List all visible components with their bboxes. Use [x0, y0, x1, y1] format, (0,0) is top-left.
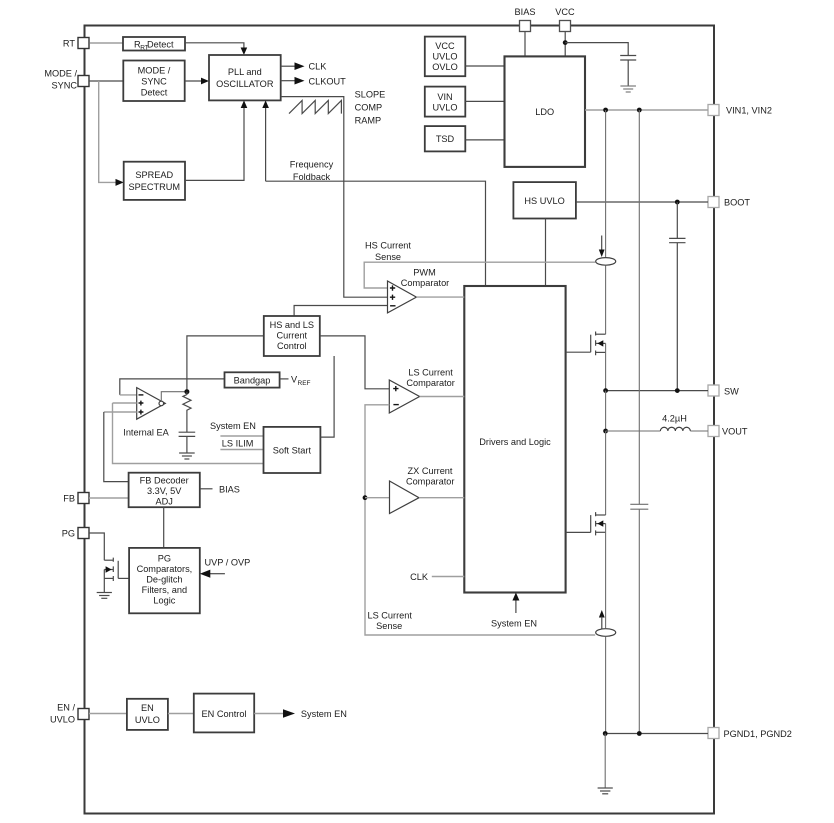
wire sensor to HS FET drain — [605, 266, 607, 335]
block FB Decoder — [129, 473, 200, 508]
svg-text:PLL and: PLL and — [228, 67, 262, 77]
wire PG gate to PG comparators — [118, 577, 129, 579]
block HS UVLO — [513, 182, 576, 218]
wire frequency foldback vertical to PLL bottom with arrow — [262, 100, 269, 181]
svg-text:SPREAD: SPREAD — [135, 170, 173, 180]
label ZX Current Comparator — [406, 466, 455, 487]
svg-text:Detect: Detect — [141, 88, 168, 98]
wire LDO to VIN pin — [585, 109, 708, 111]
op-amp ZX current comparator — [390, 481, 420, 514]
wire LS comparator output to drivers — [420, 396, 465, 398]
svg-text:System EN: System EN — [491, 619, 537, 629]
block VCC UVLO OVLO — [425, 37, 466, 77]
label BOOT — [724, 198, 750, 208]
svg-text:HS Current: HS Current — [365, 241, 411, 251]
chip outer border — [85, 26, 715, 814]
output CLK arrow — [281, 62, 328, 72]
svg-text:Soft Start: Soft Start — [273, 446, 312, 456]
wire comp node to HS and LS current control — [187, 336, 264, 392]
svg-text:CLK: CLK — [309, 62, 328, 72]
svg-text:VCC: VCC — [435, 41, 455, 51]
op-amp PWM comparator — [388, 281, 417, 313]
label EN / UVLO — [50, 703, 75, 725]
svg-text:Logic: Logic — [153, 596, 175, 606]
label UVP / OVP — [205, 558, 251, 568]
wire PWM minus input from HS and LS current control — [294, 306, 387, 317]
svg-text:System EN: System EN — [301, 709, 347, 719]
svg-text:Sense: Sense — [376, 621, 402, 631]
svg-text:OVLO: OVLO — [432, 62, 458, 72]
svg-text:VOUT: VOUT — [722, 427, 748, 437]
svg-text:EN /: EN / — [57, 703, 75, 713]
transistor HS FET — [591, 332, 606, 356]
svg-text:OSCILLATOR: OSCILLATOR — [216, 79, 274, 89]
wire HS current sense — [364, 262, 595, 288]
arrow into SPREAD SPECTRUM — [116, 179, 124, 186]
svg-text:CLK: CLK — [410, 572, 429, 582]
label Frequency Foldback — [290, 159, 334, 182]
op-amp internal EA — [137, 388, 166, 420]
pin PGND1,PGND2 — [708, 728, 719, 739]
svg-text:Sense: Sense — [375, 252, 401, 262]
svg-text:Internal EA: Internal EA — [123, 428, 169, 438]
sawtooth slope comp ramp waveform — [289, 100, 341, 113]
svg-text:REF: REF — [298, 380, 311, 387]
svg-text:COMP: COMP — [355, 103, 383, 113]
wire TSD to LDO — [465, 139, 504, 141]
svg-text:Comparator: Comparator — [406, 378, 455, 388]
block TSD — [425, 126, 466, 151]
wire BIAS stub — [200, 488, 213, 490]
resistor compensation — [183, 392, 191, 433]
label PG — [62, 529, 75, 539]
svg-text:SLOPE: SLOPE — [355, 90, 386, 100]
pin VIN1,VIN2 — [708, 105, 719, 116]
label 4.2uH — [662, 414, 687, 424]
ground compensation — [179, 453, 195, 459]
svg-text:RT: RT — [63, 39, 75, 49]
node BOOT cap junction — [675, 200, 680, 205]
pin PG — [78, 528, 89, 539]
label LS Current Comparator — [406, 368, 455, 388]
node ZX tap — [363, 495, 368, 500]
node VIN rail 1 — [603, 108, 608, 113]
label SLOPE COMP RAMP — [355, 90, 386, 126]
block LDO — [505, 56, 586, 166]
svg-text:MODE /: MODE / — [44, 69, 77, 79]
wire power rail from VIN — [605, 110, 607, 257]
svg-text:BIAS: BIAS — [515, 7, 536, 17]
wire RT pin to RRT Detect — [89, 42, 123, 44]
svg-text:Filters, and: Filters, and — [142, 585, 187, 595]
label LS Current Sense — [367, 611, 412, 632]
wire PGND to ground — [604, 734, 606, 789]
transistor PG FET — [104, 558, 118, 581]
transistor LS FET — [591, 512, 606, 535]
wire VOUT node to LS FET drain — [605, 431, 607, 515]
label BIAS right of FB decoder — [219, 485, 240, 495]
wire LS sensor to PGND — [605, 637, 607, 734]
label VCC — [555, 7, 575, 17]
wire SPREAD SPECTRUM to PLL bottom with arrow — [185, 100, 247, 180]
capacitor compensation — [179, 432, 196, 453]
block EN UVLO — [127, 699, 168, 730]
svg-text:VIN: VIN — [437, 92, 452, 102]
wire BIAS pin to LDO — [524, 32, 526, 57]
block Bandgap — [225, 372, 280, 387]
pin MODE/SYNC — [78, 76, 89, 87]
svg-text:LS ILIM: LS ILIM — [222, 438, 254, 448]
label PWM Comparator — [401, 268, 450, 289]
wire CLK into drivers — [432, 576, 465, 578]
block PG Comparators — [129, 548, 200, 613]
svg-text:ZX Current: ZX Current — [408, 466, 453, 476]
label System EN soft start — [210, 421, 256, 431]
wire UVP OVP arrow into PG box — [200, 570, 225, 578]
label PGND1, PGND2 — [724, 729, 792, 739]
capacitor BOOT bootstrap — [669, 202, 685, 391]
capacitor VCC bypass — [620, 56, 636, 87]
wire VCC to cap — [565, 43, 628, 56]
ground power — [598, 788, 613, 794]
node SW left — [603, 388, 608, 393]
block Soft Start — [264, 427, 321, 473]
svg-text:FB: FB — [63, 494, 75, 504]
pin BOOT — [708, 197, 719, 208]
svg-text:FB Decoder: FB Decoder — [140, 476, 189, 486]
block VIN UVLO — [425, 87, 466, 117]
svg-text:UVLO: UVLO — [432, 103, 457, 113]
wire HS UVLO to BOOT pin — [576, 201, 708, 203]
svg-text:Comparator: Comparator — [401, 278, 450, 288]
label LS ILIM — [222, 438, 254, 448]
svg-text:PG: PG — [158, 554, 171, 564]
pin VCC — [560, 21, 571, 32]
capacitor input cap — [630, 504, 648, 733]
wire inductor to VOUT pin — [690, 430, 708, 432]
svg-text:RAMP: RAMP — [355, 116, 382, 126]
wire LS current sense line — [365, 405, 595, 635]
current sensor LS ellipse — [596, 629, 616, 637]
svg-text:PGND1, PGND2: PGND1, PGND2 — [724, 729, 792, 739]
svg-text:UVLO: UVLO — [135, 715, 160, 725]
wire HS gate from drivers — [566, 351, 591, 353]
block SPREAD SPECTRUM — [124, 162, 185, 200]
svg-text:Detect: Detect — [147, 39, 174, 49]
pin BIAS — [520, 21, 531, 32]
node VCC cap junction — [563, 40, 568, 45]
wire soft start to EA plus — [113, 403, 264, 464]
wire frequency foldback horizontal to drivers — [266, 181, 486, 286]
wire MODE/SYNC drop to SPREAD SPECTRUM — [99, 81, 116, 182]
ground VCC cap — [620, 86, 636, 92]
block MODE/SYNC Detect — [123, 61, 184, 102]
wire LS gate from drivers — [566, 531, 591, 533]
label CLK — [410, 572, 429, 582]
wire EA output to node — [161, 392, 187, 401]
wire HS UVLO to drivers top — [545, 219, 547, 287]
output CLKOUT arrow — [281, 76, 346, 86]
block Drivers and Logic — [464, 286, 565, 593]
label BIAS — [515, 7, 536, 17]
svg-text:Bandgap: Bandgap — [234, 376, 271, 386]
node VOUT rail — [603, 429, 608, 434]
op-amp LS current comparator — [389, 380, 419, 413]
block EN Control — [194, 694, 254, 733]
arrow HS current direction — [599, 236, 605, 258]
wire FB decoder to PG comparators — [163, 507, 165, 548]
label MODE / SYNC — [44, 69, 77, 91]
pin SW — [708, 385, 719, 396]
arrow LS current direction — [599, 610, 605, 629]
wire RRT Detect to PLL top with arrow — [185, 43, 247, 55]
wire MODE/SYNC pin to MODE/SYNC Detect — [89, 80, 123, 82]
svg-text:VCC: VCC — [555, 7, 575, 17]
svg-text:4.2µH: 4.2µH — [662, 414, 687, 424]
svg-text:SW: SW — [724, 387, 739, 397]
wire VCC UVLO to LDO — [465, 65, 504, 67]
svg-text:Comparators,: Comparators, — [137, 564, 193, 574]
wire MODE/SYNC Detect to PLL with arrow — [185, 78, 209, 85]
svg-text:EN Control: EN Control — [202, 709, 247, 719]
node PGND rail2 — [637, 731, 642, 736]
svg-text:Frequency: Frequency — [290, 159, 334, 169]
block HS and LS Current Control — [264, 316, 320, 356]
label VREF — [280, 375, 311, 387]
wire SW to pin — [606, 390, 708, 392]
svg-text:UVLO: UVLO — [50, 715, 75, 725]
node VIN rail 2 — [637, 108, 642, 113]
svg-text:SYNC: SYNC — [141, 77, 167, 87]
svg-text:Control: Control — [277, 341, 307, 351]
wire slope comp ramp from PLL to PWM comparator — [281, 97, 388, 298]
pin RT — [78, 38, 89, 49]
wire FB decoder to EA plus — [104, 412, 137, 482]
wire soft start to HS and LS control — [320, 356, 334, 437]
svg-text:VIN1, VIN2: VIN1, VIN2 — [726, 106, 772, 116]
label System EN output — [301, 709, 347, 719]
wire SW to VOUT node — [605, 391, 607, 431]
wire FB pin to FB decoder — [89, 497, 129, 499]
wire input cap rail — [638, 110, 640, 504]
wire HS FET source to SW — [605, 343, 607, 390]
block PLL and OSCILLATOR — [209, 55, 281, 100]
svg-text:Comparator: Comparator — [406, 477, 455, 487]
svg-text:CLKOUT: CLKOUT — [309, 76, 347, 86]
wire ZX output to drivers — [419, 497, 464, 499]
pin EN/UVLO — [78, 709, 89, 720]
svg-text:System EN: System EN — [210, 421, 256, 431]
label FB — [63, 494, 75, 504]
svg-text:ADJ: ADJ — [156, 497, 173, 507]
node EA output — [184, 389, 189, 394]
svg-text:TSD: TSD — [436, 134, 455, 144]
wire System EN arrow into drivers bottom — [512, 593, 519, 614]
label HS Current Sense — [365, 241, 411, 263]
wire LS ILIM stub — [220, 449, 263, 451]
wire HS and LS control to LS comparator plus — [320, 336, 390, 389]
wire LS FET source down — [605, 524, 607, 629]
node PGND rail1 — [603, 731, 608, 736]
svg-text:UVP / OVP: UVP / OVP — [205, 558, 251, 568]
node SW bootcap — [675, 388, 680, 393]
svg-text:HS and LS: HS and LS — [270, 320, 314, 330]
svg-text:MODE /: MODE / — [138, 66, 171, 76]
svg-text:UVLO: UVLO — [432, 52, 457, 62]
wire PG FET source to ground — [103, 570, 105, 593]
wire System EN stub — [220, 435, 263, 437]
wire VOUT node to inductor — [606, 430, 661, 432]
wire PWM output to drivers — [416, 296, 464, 298]
wire EN control output arrow — [254, 709, 295, 718]
svg-text:SYNC: SYNC — [51, 81, 77, 91]
block RRT Detect — [123, 37, 185, 51]
svg-text:PG: PG — [62, 529, 75, 539]
wire PG pin to FET — [89, 533, 104, 560]
svg-text:Foldback: Foldback — [293, 172, 331, 182]
svg-text:LS Current: LS Current — [408, 368, 453, 378]
svg-text:HS UVLO: HS UVLO — [524, 196, 564, 206]
svg-text:LDO: LDO — [535, 107, 554, 117]
svg-text:EN: EN — [141, 703, 154, 713]
wire EN pin to EN UVLO — [89, 713, 127, 715]
svg-text:Drivers and Logic: Drivers and Logic — [479, 437, 551, 447]
svg-text:3.3V, 5V: 3.3V, 5V — [147, 486, 182, 496]
svg-text:BIAS: BIAS — [219, 485, 240, 495]
label VOUT — [722, 427, 748, 437]
svg-text:LS Current: LS Current — [367, 611, 412, 621]
wire ZX input — [365, 497, 390, 499]
pin VOUT — [708, 426, 719, 437]
wire EN UVLO to EN Control — [168, 713, 194, 715]
wire bandgap to EA minus — [120, 379, 225, 395]
ground PG FET — [97, 593, 112, 599]
current sensor HS ellipse — [596, 258, 616, 266]
label Internal EA — [123, 428, 169, 438]
svg-text:De-glitch: De-glitch — [146, 575, 182, 585]
label System EN below drivers — [491, 619, 537, 629]
inductor 4.2uH — [660, 427, 690, 431]
wire VIN UVLO to LDO — [465, 100, 504, 102]
label SW — [724, 387, 739, 397]
wire VCC pin to LDO — [564, 32, 566, 57]
svg-text:SPECTRUM: SPECTRUM — [129, 182, 181, 192]
svg-text:BOOT: BOOT — [724, 198, 750, 208]
svg-text:PWM: PWM — [413, 268, 435, 278]
wire PGND to pin — [605, 733, 708, 735]
label RT — [63, 39, 75, 49]
svg-text:Current: Current — [276, 331, 307, 341]
pin FB — [78, 493, 89, 504]
label VIN1, VIN2 — [726, 106, 772, 116]
